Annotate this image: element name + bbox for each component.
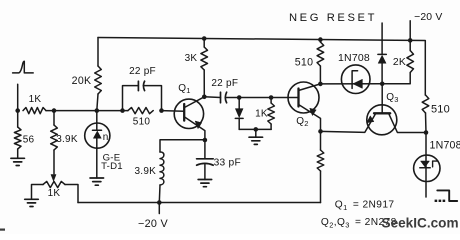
label 1K pot	[48, 188, 61, 199]
top supply rail	[98, 38, 425, 96]
svg-text:2K: 2K	[393, 57, 406, 68]
label 20K	[72, 75, 92, 87]
svg-text:20K: 20K	[72, 75, 92, 87]
svg-text:22 pF: 22 pF	[211, 78, 238, 89]
ground G5	[249, 129, 262, 144]
svg-text:1K: 1K	[29, 94, 42, 105]
svg-text:SeekIC.com: SeekIC.com	[382, 216, 459, 231]
tunnel diode 1N708 output	[414, 133, 440, 198]
svg-text:−20 V: −20 V	[138, 218, 169, 230]
node clamp diode top	[237, 95, 242, 100]
output waveform	[435, 190, 458, 202]
node loop left	[120, 108, 125, 113]
svg-text:56: 56	[23, 135, 35, 146]
label 56	[23, 135, 35, 146]
diode D1 clamp	[235, 98, 243, 130]
wiper arrow	[51, 175, 56, 182]
wire input lead	[17, 84, 19, 110]
wire 22pF loop	[123, 86, 162, 111]
node input junction	[15, 108, 20, 113]
svg-text:22 pF: 22 pF	[129, 66, 156, 77]
label G-E	[103, 153, 121, 164]
label 2K	[393, 57, 406, 68]
label 1K series	[29, 94, 42, 105]
resistor 3.9K emitter	[159, 152, 164, 203]
node clamp ground	[254, 127, 259, 132]
node Q2 collector	[318, 82, 323, 87]
speck bottom left	[0, 229, 5, 231]
ground G1	[11, 158, 25, 165]
svg-text:1N708: 1N708	[338, 52, 370, 64]
label 3K	[185, 53, 198, 64]
ground G2	[25, 199, 39, 206]
wire Q3 base	[381, 84, 383, 114]
label T-D1	[101, 161, 123, 172]
node Q2 emitter	[318, 129, 323, 134]
label 510 Q2	[295, 57, 313, 69]
node 1K clamp top	[269, 95, 274, 100]
-20V supply bottom	[138, 203, 169, 231]
transistor Q3	[321, 105, 427, 135]
resistor 3K	[201, 39, 208, 97]
node 20K junction	[95, 108, 100, 113]
svg-text:3.9K: 3.9K	[135, 166, 157, 177]
ground G4	[198, 180, 212, 187]
svg-text:3.9K: 3.9K	[56, 134, 78, 145]
node Q3 collector	[424, 130, 429, 135]
capacitor 33pF	[197, 140, 214, 180]
label 1K clamp	[255, 108, 268, 119]
label Q2	[296, 116, 308, 128]
annotation Q1 type	[335, 200, 395, 212]
label 22pF coupling	[211, 78, 238, 89]
svg-text:510: 510	[431, 104, 450, 116]
resistor 56	[14, 111, 21, 159]
wire clamp common	[239, 128, 271, 130]
potentiometer 1K	[32, 181, 79, 202]
resistor 1K series	[23, 108, 46, 114]
wire to Q1 base	[162, 110, 185, 113]
capacitor 22pF left	[138, 81, 144, 90]
label 1N708 reset	[338, 52, 370, 64]
node 3K top	[202, 36, 207, 41]
label 510 speedup	[133, 117, 151, 128]
input pulse waveform	[13, 61, 34, 73]
svg-text:1N708: 1N708	[430, 139, 460, 151]
svg-text:1K: 1K	[48, 188, 61, 199]
label 3.9K	[56, 134, 78, 145]
wire emitter branch	[160, 140, 205, 152]
svg-text:T-D1: T-D1	[101, 161, 123, 172]
capacitor 22pF coupling	[204, 92, 239, 103]
resistor 3.9K	[51, 111, 58, 174]
tunnel diode 1N708 reset	[341, 65, 370, 94]
node -20V tap	[157, 200, 162, 205]
diode reset steering	[378, 54, 386, 83]
resistor 510 speedup	[128, 108, 153, 114]
label 3.9K emitter	[135, 166, 157, 177]
node loop right	[159, 108, 164, 113]
node reset junction	[380, 82, 385, 87]
-20V supply top	[410, 12, 442, 40]
label Q3	[386, 92, 398, 104]
node 2K top	[408, 38, 413, 43]
resistor Q2 emitter	[317, 131, 324, 202]
ground G3	[90, 178, 104, 185]
resistor 510 Q2 load	[317, 40, 324, 84]
transistor Q2	[288, 82, 321, 131]
node 3.9K junction	[52, 108, 57, 113]
watermark SeekIC.com	[382, 216, 459, 231]
resistor 2K	[382, 40, 413, 83]
node Q1 collector	[202, 95, 207, 100]
label 22pF left	[129, 66, 156, 77]
wire to Q2 base	[239, 97, 298, 99]
wire reset line	[320, 83, 382, 85]
bottom rail	[78, 202, 321, 204]
transistor Q1	[174, 97, 205, 140]
resistor 510 output	[422, 95, 429, 133]
svg-text:3K: 3K	[185, 53, 198, 64]
NEG RESET input	[289, 12, 382, 54]
node Q1 emitter	[203, 138, 208, 143]
label 1N708 output	[430, 139, 460, 151]
label Q1	[178, 83, 190, 95]
resistor 1K clamp	[268, 98, 275, 130]
label 510 output	[431, 104, 450, 116]
resistor 20K	[95, 38, 102, 111]
svg-text:510: 510	[133, 117, 151, 128]
svg-text:NEG RESET: NEG RESET	[289, 12, 377, 24]
svg-text:33 pF: 33 pF	[214, 158, 241, 169]
wire main line	[46, 110, 128, 112]
tunnel diode G-E T-D1	[85, 111, 110, 178]
annotation Q2 Q3 type	[321, 217, 397, 229]
svg-text:−20 V: −20 V	[414, 12, 442, 23]
node 510 top	[318, 37, 323, 42]
label 33pF	[214, 158, 241, 169]
svg-text:510: 510	[295, 57, 313, 69]
svg-text:n: n	[103, 132, 109, 143]
svg-text:1K: 1K	[255, 108, 268, 119]
